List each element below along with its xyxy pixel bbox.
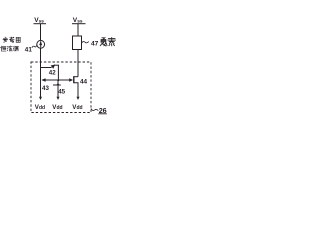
transistor 44 channel bar [73,76,75,83]
transistor 43 drain-gate arrow (bus left arrowhead) [41,78,45,81]
net Vss right label [73,17,83,24]
wire end arrow Vdd 1 [39,97,42,100]
wire Vss to current source [40,24,42,41]
wire pixel to transistor 44 drain [77,50,79,77]
wire end arrow Vdd 2 [57,97,60,100]
glyph 用 [16,37,20,42]
svg-text:44: 44 [80,79,88,86]
label 26 underline [98,113,107,115]
current source 41 circle [37,40,45,48]
Vss right rail bar [72,23,86,25]
wire Vss to pixel 47 [77,24,79,36]
transistor 42 channel [54,64,59,66]
glyph 考 [9,37,14,42]
transistor 44 drain bend [74,76,78,78]
pixel 47 box [73,36,82,50]
svg-text:Vdd: Vdd [35,104,45,111]
svg-text:43: 43 [42,85,49,92]
svg-text:26: 26 [99,106,107,115]
svg-text:42: 42 [49,69,56,76]
dashed current mirror box 26 [31,62,91,113]
leader squiggle to 41 [32,45,37,48]
transistor 42 gate wire [41,67,52,69]
glyph 象 [100,38,107,46]
net Vss left label [34,17,44,24]
wire current source down to node [40,48,42,97]
svg-text:41: 41 [25,47,33,54]
glyph 源 [13,46,18,51]
transistor 42 arrowhead [51,65,56,69]
current source arrow [40,41,42,47]
glyph 流 [7,46,12,51]
svg-text:Vdd: Vdd [52,104,62,111]
leader squiggle to 47 [82,42,89,43]
transistor 44 gate arrowhead [69,78,73,81]
glyph 恒 [1,46,6,51]
transistor 45 gate bar [53,84,61,86]
wire end arrow Vdd 3 [77,97,80,100]
transistor 42 drain wire down to bus [57,65,59,80]
svg-text:45: 45 [58,89,65,96]
svg-text:Vdd: Vdd [72,104,82,111]
transistor 44 source bend [74,83,78,98]
glyph 素 [108,38,116,46]
glyph 参 [3,37,8,42]
transistor 45 channel wire down [57,80,59,98]
svg-text:47: 47 [91,40,99,47]
Vss left rail bar [34,23,47,25]
leader squiggle to 26 [91,109,98,111]
gate bus wire [45,79,71,81]
node junction bus/45 [57,79,59,81]
CJK annotation text drawn as strokes [1,37,116,51]
transistor 45 gate arrowhead [57,83,60,85]
